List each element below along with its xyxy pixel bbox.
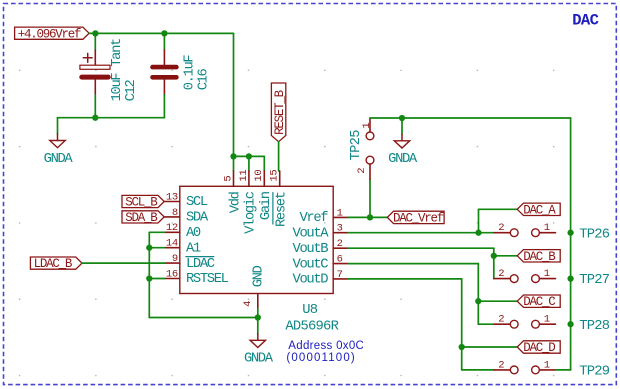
- svg-text:5: 5: [222, 176, 234, 182]
- wire A0 to strap: [149, 231, 164, 233]
- pin 6 (VoutC) stub: [333, 263, 348, 265]
- wire VoutA to TP26: [348, 232, 494, 234]
- global label DAC_D: [517, 341, 560, 355]
- C16 value label 0.1uF: [183, 55, 198, 91]
- svg-text:C12: C12: [124, 80, 139, 102]
- Reset pin overline: [272, 193, 274, 225]
- svg-text:AD5696R: AD5696R: [285, 320, 338, 335]
- capacitor C16 (0.1uF): [153, 33, 177, 117]
- junction TP26 on right bus: [567, 230, 573, 236]
- pin 9 (LDAC) stub: [165, 262, 180, 264]
- svg-text:SCL_B: SCL_B: [125, 196, 158, 210]
- wire VoutD run: [348, 278, 462, 280]
- svg-text:SDA_B: SDA_B: [125, 211, 158, 225]
- svg-text:A1: A1: [186, 241, 201, 256]
- junction C16 tap on rail: [161, 30, 167, 36]
- svg-text:C16: C16: [196, 68, 211, 90]
- op-amp U8 AD5696R body: [180, 186, 333, 293]
- pin 4 (GND) stub: [257, 294, 259, 309]
- C16 reference label: [196, 68, 211, 90]
- junction A1 strap: [146, 245, 152, 251]
- wire VoutC run: [348, 263, 478, 265]
- svg-text:13: 13: [166, 191, 178, 203]
- junction DAC_A tap: [475, 230, 481, 236]
- TP27 reference label: [579, 273, 610, 288]
- LDAC pin overline: [186, 256, 214, 258]
- pin 11 (Vlogic) stub: [248, 171, 250, 186]
- pin number 15: [269, 170, 281, 182]
- wire TP29 left link: [462, 369, 494, 371]
- svg-text:Vref: Vref: [299, 210, 328, 226]
- global label DAC_C: [517, 295, 560, 309]
- wire to pin 10: [263, 156, 265, 171]
- junction Vlogic node: [246, 153, 252, 159]
- svg-text:Address 0x0C: Address 0x0C: [288, 340, 364, 352]
- wire TP29 to right bus: [556, 369, 571, 371]
- TP29 reference label: [579, 365, 610, 380]
- junction DAC_B tap: [491, 253, 497, 259]
- pin number 2: [337, 238, 343, 250]
- pin number 4: [242, 301, 254, 307]
- svg-text:+4.096Vref: +4.096Vref: [18, 27, 81, 41]
- pin name Reset: [275, 192, 290, 227]
- pin 2 (VoutB) stub: [333, 247, 348, 249]
- svg-text:2: 2: [498, 268, 504, 280]
- pin 14 (A1) stub: [165, 247, 180, 249]
- svg-text:1: 1: [361, 123, 373, 129]
- wire VoutB drop: [493, 248, 495, 278]
- wire +4.096Vref rail: [89, 32, 233, 34]
- svg-text:1: 1: [337, 207, 343, 219]
- pin number 7: [337, 269, 343, 281]
- pin name VoutB: [293, 242, 329, 257]
- svg-text:0.1uF: 0.1uF: [183, 55, 198, 91]
- wire VoutB run: [348, 247, 494, 249]
- pin 3 (VoutA) stub: [333, 232, 348, 234]
- TP25 pin number 2: [356, 168, 368, 174]
- pin 16 (RSTSEL) stub: [165, 278, 180, 280]
- wire VoutD drop: [461, 279, 463, 370]
- svg-text:GNDA: GNDA: [388, 152, 418, 167]
- pin name VoutD: [293, 273, 329, 288]
- svg-text:9: 9: [172, 253, 178, 265]
- test point TP29: [494, 359, 556, 374]
- svg-text:U8: U8: [302, 303, 318, 318]
- global label RESET_B (vertical): [271, 83, 287, 142]
- svg-text:12: 12: [166, 222, 178, 234]
- TP28 reference label: [579, 319, 610, 334]
- global label DAC_Vref: [387, 211, 444, 225]
- junction GND node under U8: [255, 314, 261, 320]
- pin name A0: [186, 226, 201, 241]
- pin name Vlogic: [243, 191, 259, 234]
- pin 13 (SCL) stub: [165, 201, 180, 203]
- wire VoutC drop: [477, 264, 479, 325]
- pin name VoutA: [293, 226, 330, 241]
- svg-text:VoutB: VoutB: [293, 242, 329, 257]
- svg-text:6: 6: [337, 254, 343, 266]
- svg-text:LDAC_B: LDAC_B: [34, 257, 73, 271]
- svg-text:Vdd: Vdd: [227, 191, 243, 213]
- U8 value label AD5696R: [285, 320, 338, 335]
- junction C12 bottom: [92, 115, 98, 121]
- wire RESET_B to pin 15: [278, 142, 280, 171]
- svg-text:TP27: TP27: [579, 273, 610, 288]
- pin number 14: [166, 238, 178, 250]
- pin 8 (SDA) stub: [165, 216, 180, 218]
- svg-text:TP26: TP26: [579, 227, 610, 242]
- wire right bus vertical: [570, 118, 572, 370]
- capacitor C12 (10uF Tant polarized): [80, 33, 110, 117]
- test point TP26: [494, 222, 556, 237]
- wire TP25 pin1 rail to right bus: [370, 117, 571, 119]
- pin 15 (Reset) stub: [279, 171, 281, 186]
- svg-text:RESET_B: RESET_B: [273, 89, 287, 135]
- svg-text:2: 2: [498, 222, 504, 234]
- junction DAC_C tap: [475, 298, 481, 304]
- svg-text:SCL: SCL: [186, 195, 208, 210]
- wire DAC_A drop: [478, 209, 480, 232]
- svg-text:DAC_D: DAC_D: [523, 341, 555, 355]
- wire Vref pin to DAC_Vref label: [348, 216, 387, 218]
- pin name LDAC: [186, 257, 215, 272]
- TP26 reference label: [579, 227, 610, 242]
- svg-text:DAC_A: DAC_A: [523, 203, 556, 217]
- svg-text:GNDA: GNDA: [44, 152, 74, 167]
- wire strap vertical A0/A1/RSTSEL to GND: [148, 232, 150, 317]
- svg-text:1: 1: [544, 268, 550, 280]
- pin name Gain: [258, 191, 274, 220]
- svg-text:VoutA: VoutA: [293, 226, 330, 241]
- wire LDAC_B to pin 9: [82, 262, 165, 264]
- test point TP28: [494, 314, 556, 329]
- TP25 reference label: [349, 130, 364, 161]
- wire Vdd-Vlogic-Gain bridge: [234, 155, 265, 157]
- pin number 6: [337, 254, 343, 266]
- pin number 3: [337, 223, 343, 235]
- svg-text:Reset: Reset: [275, 192, 290, 227]
- pin name SDA: [186, 211, 209, 226]
- junction RSTSEL strap: [146, 275, 152, 281]
- svg-text:VoutC: VoutC: [293, 257, 329, 272]
- pin number 11: [238, 170, 250, 182]
- svg-text:10: 10: [253, 170, 265, 182]
- svg-text:2: 2: [498, 359, 504, 371]
- junction at +4.096Vref label / C12 tap: [92, 30, 98, 36]
- svg-text:3: 3: [337, 223, 343, 235]
- pin number 12: [166, 222, 178, 234]
- pin number 13: [166, 191, 178, 203]
- svg-text:DAC_B: DAC_B: [523, 250, 556, 264]
- svg-text:DAC: DAC: [572, 12, 598, 30]
- text note DAC (sheet title): [572, 12, 598, 30]
- pin name A1: [186, 241, 201, 256]
- svg-text:2: 2: [337, 238, 343, 250]
- svg-text:Vlogic: Vlogic: [243, 191, 259, 234]
- global label LDAC_B: [30, 257, 82, 271]
- svg-text:16: 16: [166, 268, 178, 280]
- svg-text:DAC_C: DAC_C: [523, 295, 555, 309]
- wire DAC_A label lead: [479, 208, 518, 210]
- pin number 8: [172, 207, 178, 219]
- wire Vref rail down to Vdd: [233, 33, 235, 156]
- ground GNDA (left): [44, 118, 74, 167]
- svg-text:14: 14: [166, 238, 178, 250]
- svg-text:DAC_Vref: DAC_Vref: [393, 211, 444, 225]
- pin name Vref: [299, 210, 328, 226]
- svg-text:8: 8: [172, 207, 178, 219]
- svg-text:2: 2: [356, 168, 368, 174]
- wire RSTSEL to strap: [149, 278, 164, 280]
- global label SDA_B: [122, 211, 164, 225]
- global label +4.096Vref: [15, 27, 90, 41]
- ground GNDA (under U8): [244, 318, 274, 367]
- junction Vdd node: [230, 153, 236, 159]
- svg-text:GNDA: GNDA: [244, 352, 274, 367]
- wire strap bottom to GND node: [149, 317, 257, 319]
- wire TP28 left link: [478, 323, 494, 325]
- junction TP27 on right bus: [567, 275, 573, 281]
- pin 12 (A0) stub: [165, 231, 180, 233]
- svg-text:7: 7: [337, 269, 343, 281]
- pin number 10: [253, 170, 265, 182]
- wire pin 4 to ground: [257, 309, 259, 318]
- pin name VoutC: [293, 257, 329, 272]
- svg-text:(00001100): (00001100): [286, 352, 355, 364]
- wire capacitor bottoms to ground: [58, 117, 165, 119]
- pin number 9: [172, 253, 178, 265]
- text note (00001100): [286, 352, 355, 364]
- svg-text:GND: GND: [251, 265, 266, 287]
- svg-text:1: 1: [544, 222, 550, 234]
- wire DAC_C label lead: [478, 300, 517, 302]
- svg-text:A0: A0: [186, 226, 201, 241]
- svg-text:2: 2: [498, 314, 504, 326]
- test point TP27: [494, 268, 556, 283]
- pin number 16: [166, 268, 178, 280]
- junction GNDA tap on TP25 rail: [399, 115, 405, 121]
- wire A1 to strap: [149, 247, 164, 249]
- pin 1 (Vref) stub: [333, 216, 348, 218]
- svg-text:1: 1: [544, 359, 550, 371]
- wire to pin 5: [233, 156, 235, 171]
- pin 5 (Vdd) stub: [233, 171, 235, 186]
- svg-text:Gain: Gain: [258, 191, 274, 220]
- ground GNDA (top middle): [388, 118, 418, 167]
- wire to pin 11: [248, 156, 250, 171]
- pin number 5: [222, 176, 234, 182]
- text note Address 0x0C: [288, 340, 364, 352]
- pin name RSTSEL: [186, 272, 229, 287]
- svg-text:LDAC: LDAC: [186, 257, 215, 272]
- wire DAC_B label lead: [494, 255, 517, 257]
- U8 reference label: [302, 303, 318, 318]
- global label DAC_A: [517, 203, 560, 217]
- pin 7 (VoutD) stub: [333, 278, 348, 280]
- pin name SCL: [186, 195, 208, 210]
- wire DAC_D label lead: [462, 346, 518, 348]
- svg-text:11: 11: [238, 170, 250, 182]
- junction TP25 tap on Vref: [367, 214, 373, 220]
- svg-text:VoutD: VoutD: [293, 273, 329, 288]
- pin number 1: [337, 207, 343, 219]
- C12 value label 10uF Tant: [110, 39, 125, 101]
- pin 10 (Gain) stub: [263, 171, 265, 186]
- svg-text:1: 1: [544, 314, 550, 326]
- global label SCL_B: [122, 195, 164, 209]
- TP25 pin number 1: [361, 123, 373, 129]
- svg-text:TP28: TP28: [579, 319, 610, 334]
- C12 reference label: [124, 80, 139, 102]
- svg-text:TP29: TP29: [579, 365, 610, 380]
- pin name Vdd: [227, 191, 243, 213]
- svg-text:RSTSEL: RSTSEL: [186, 272, 229, 287]
- global label DAC_B: [517, 250, 560, 264]
- pin name GND: [251, 265, 266, 287]
- svg-text:4: 4: [242, 301, 254, 307]
- svg-text:SDA: SDA: [186, 211, 209, 226]
- test point TP25: [366, 118, 374, 217]
- svg-text:15: 15: [269, 170, 281, 182]
- svg-text:TP25: TP25: [349, 130, 364, 161]
- junction DAC_D tap: [459, 344, 465, 350]
- junction TP28 on right bus: [567, 321, 573, 327]
